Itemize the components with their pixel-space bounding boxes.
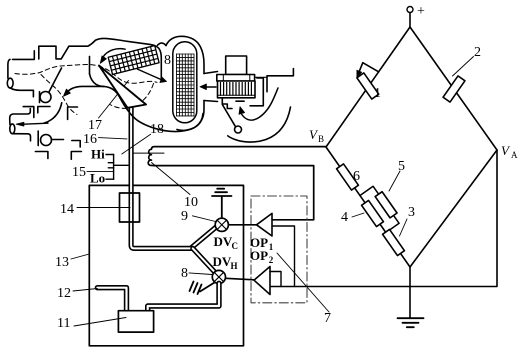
lower pipe top wall (10, 109, 31, 125)
sensor DV_H (circle with X) item 8 (212, 270, 225, 283)
wire apex to node VB (326, 27, 410, 147)
svg-text:10: 10 (184, 195, 198, 210)
svg-text:2: 2 (474, 45, 481, 60)
probe tube (double line) down through box 14 (131, 102, 217, 274)
dashed flow path main (15, 65, 157, 84)
terminal comb bracket (106, 155, 128, 180)
bracket right of throttle (267, 69, 293, 92)
resistor R1 (hot wire) (357, 63, 379, 99)
label 2 with leader (453, 45, 482, 76)
wire DV_C to OP1 (228, 224, 256, 226)
resistor R3 (383, 229, 405, 255)
wire VA to bottom node (410, 150, 497, 267)
heater hatch symbol at DV_H (190, 282, 215, 295)
curved flow arrow in air horn (239, 88, 278, 120)
finned body (218, 81, 256, 98)
ground above DV_C (inverted) (212, 189, 232, 218)
intake manifold castellated top (13, 40, 96, 59)
resistor R6 (337, 164, 359, 190)
curved arrow onto mesh (100, 49, 125, 64)
label 10 with leader (152, 163, 199, 211)
chamber left wall (89, 56, 91, 73)
air cleaner chamber top (slopes over mesh, wraps its right end) (96, 38, 162, 79)
label 15 with leader (87, 171, 114, 173)
lower bracket marks (35, 152, 48, 159)
label 5 with leader (389, 159, 405, 191)
svg-text:3: 3 (408, 205, 415, 220)
resistor R4 (lower parallel, on main line) (362, 200, 384, 226)
wire DV_H to OP2 (226, 278, 255, 280)
dashed recirculation under mesh (110, 84, 154, 109)
feedback wire OP2 (270, 272, 281, 287)
svg-text:6: 6 (353, 169, 360, 184)
sensor DV_C (circle with X) item 9 (215, 218, 228, 231)
seat tick left of lower valve (37, 131, 39, 145)
svg-text:H: H (231, 261, 238, 271)
op-amp OP2 (254, 267, 270, 295)
svg-text:7: 7 (324, 311, 331, 326)
outer wall around oval element (166, 36, 204, 73)
label 3 with leader (400, 205, 416, 236)
feedback wire OP1 to output line (272, 226, 295, 287)
throttle shaft diagonal (222, 105, 235, 128)
label 12 with leader (57, 286, 97, 301)
svg-text:DV: DV (214, 234, 233, 249)
svg-text:2: 2 (269, 255, 274, 265)
flow arrow to oval element (137, 69, 166, 82)
flow arrow into oval (200, 84, 216, 90)
label 4 with leader (341, 210, 364, 225)
box 14 (component on tube) (120, 193, 140, 222)
wire 12 (double) into box 11 (97, 288, 126, 311)
label 16 with leader (83, 132, 127, 147)
seat tick left of valve (39, 92, 41, 103)
deflector plate (triangle) (99, 66, 146, 108)
base bracket under assembly (72, 141, 80, 148)
duct from oval to throttle unit (204, 72, 218, 102)
flow arrow out of lower pipe (16, 122, 48, 126)
svg-text:16: 16 (83, 132, 97, 147)
resistor R5 (upper parallel) (375, 192, 397, 218)
svg-text:17: 17 (88, 118, 102, 133)
coil / cable (item 10) top wire to VB, bottom wire loop to OP1 (148, 147, 326, 220)
wire VA down right side and output wire from OP2 (270, 150, 497, 287)
label 11 with leader (57, 316, 126, 331)
svg-text:9: 9 (181, 209, 188, 224)
chamber bottom wall to bypass arrow (65, 86, 104, 94)
dashed bypass branch (41, 75, 77, 115)
flange (217, 75, 255, 82)
svg-text:1: 1 (269, 242, 274, 252)
mounting bracket marks upper (23, 107, 34, 118)
ground (bridge) (398, 318, 424, 327)
svg-text:Hi: Hi (91, 147, 105, 162)
tilted mesh screen (item 8 sensor screen) (108, 46, 159, 75)
chamber bottom wavy wall (104, 86, 203, 131)
svg-text:13: 13 (55, 255, 69, 270)
chamber mouth lower curve (90, 74, 104, 87)
flange-to-bracket link (255, 76, 267, 78)
OP1 label (250, 235, 274, 252)
curved air horn outer wall (228, 107, 291, 142)
box 11 (118, 311, 153, 332)
pinch between chamber and oval duct (158, 43, 167, 45)
svg-text:B: B (318, 134, 324, 144)
svg-text:OP: OP (250, 248, 268, 263)
svg-text:12: 12 (57, 286, 71, 301)
wire VB to bottom node (lower-left bridge branch) (326, 147, 410, 267)
mounting foot steps (222, 99, 244, 109)
label 14 with leader (60, 202, 130, 217)
DV_H label (213, 254, 238, 271)
label 17 with leader (88, 81, 129, 134)
svg-text:5: 5 (398, 159, 405, 174)
wire apex to node VA (410, 27, 497, 150)
box 13 (89, 185, 243, 345)
svg-text:8: 8 (181, 266, 188, 281)
DV_C label (214, 234, 239, 251)
svg-text:+: + (417, 4, 425, 19)
svg-text:Lo: Lo (90, 171, 105, 186)
label 13 with leader (55, 254, 89, 270)
wire bottom node down to ground (409, 267, 411, 318)
lower pipe stub (10, 124, 15, 134)
throttle pivot circle (235, 126, 242, 133)
svg-text:4: 4 (341, 210, 348, 225)
label 9 with leader (181, 209, 216, 224)
OP2 label (250, 248, 274, 265)
svg-text:C: C (232, 241, 239, 251)
dash-dot box 7 (251, 196, 307, 303)
svg-text:8: 8 (164, 53, 171, 68)
resistor R2 (443, 76, 465, 102)
bypass channel inner wall (44, 103, 62, 123)
svg-text:DV: DV (213, 254, 232, 269)
svg-text:15: 15 (72, 165, 86, 180)
label 18 with leader (122, 122, 164, 154)
valve circle upper with stem (40, 92, 51, 103)
oval flow straightener element (173, 42, 197, 123)
svg-text:14: 14 (60, 202, 74, 217)
parallel branch tracks for R4/R5 (360, 186, 399, 232)
label 8 (sensor) with leader (181, 266, 212, 281)
svg-text:A: A (511, 150, 518, 160)
upper pipe stub (8, 59, 10, 78)
throttle/idle unit cap (226, 56, 247, 75)
svg-text:11: 11 (57, 316, 70, 331)
svg-text:1: 1 (374, 86, 381, 101)
grid inside oval (177, 54, 195, 116)
op-amp OP1 (257, 213, 273, 236)
label 7 with leader (277, 253, 331, 326)
valve circle lower with stem (41, 135, 52, 146)
double wire from DV_H down to box 11 (148, 283, 219, 311)
thin wire from probe tube to cable (131, 152, 164, 154)
supply terminal + (407, 4, 425, 27)
